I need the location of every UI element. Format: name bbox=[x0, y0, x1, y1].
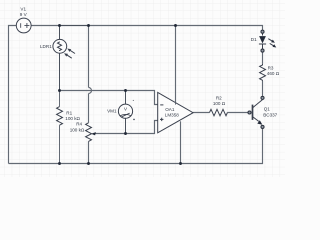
wire op-amp output to R2 bbox=[193, 112, 209, 114]
wire bottom ground rail bbox=[9, 129, 263, 164]
wire LDR to node A bbox=[59, 53, 61, 90]
svg-text:OA1: OA1 bbox=[165, 107, 175, 112]
op-amp OA1 bbox=[158, 92, 193, 132]
svg-text:100 kΩ: 100 kΩ bbox=[70, 128, 85, 133]
svg-text:100 Ω: 100 Ω bbox=[213, 101, 226, 106]
svg-text:9 V: 9 V bbox=[20, 12, 28, 17]
svg-text:LDR1: LDR1 bbox=[40, 44, 52, 49]
LDR LDR1 bbox=[53, 39, 67, 53]
voltmeter VM1 bbox=[118, 104, 132, 118]
svg-text:R1: R1 bbox=[66, 110, 72, 115]
wire Q1 collector to R3 bbox=[262, 81, 264, 96]
terminal Q1 emitter bbox=[261, 125, 264, 128]
svg-text:V1: V1 bbox=[20, 7, 26, 12]
resistor R1 bbox=[59, 91, 61, 107]
junction wiper wire / VM1 bottom bbox=[124, 132, 127, 135]
wire top rail overlap segment bbox=[60, 25, 89, 27]
svg-text:BC337: BC337 bbox=[263, 113, 277, 118]
junction ground rail / R1 bbox=[58, 162, 61, 165]
battery V1 bbox=[16, 18, 31, 33]
junction top rail / R4 branch bbox=[87, 24, 90, 27]
transistor Q1 bbox=[249, 100, 263, 125]
svg-text:R2: R2 bbox=[216, 96, 222, 101]
R4 wiper arrow bbox=[91, 132, 96, 135]
wire R4 wiper to op-amp non-inverting input bbox=[95, 121, 157, 134]
svg-text:LM358: LM358 bbox=[165, 113, 179, 118]
wire top supply rail bbox=[31, 26, 263, 31]
junction ground rail / op-amp V- bbox=[179, 162, 182, 165]
resistor R3 bbox=[260, 64, 266, 81]
VM1 polarity dot top bbox=[133, 100, 134, 101]
wire left rail (V1 minus to ground) bbox=[9, 26, 17, 164]
wire R4 branch upper segment bbox=[88, 26, 90, 88]
junction node A (LDR / R1) bbox=[58, 89, 61, 92]
svg-text:R3: R3 bbox=[268, 65, 274, 70]
svg-text:460 Ω: 460 Ω bbox=[267, 71, 280, 76]
wire op-amp V- supply pin bbox=[180, 121, 182, 163]
wire R2 to Q1 base bbox=[227, 112, 248, 114]
svg-text:D1: D1 bbox=[251, 37, 257, 42]
junction top rail / LDR branch bbox=[58, 24, 61, 27]
svg-text:Q1: Q1 bbox=[264, 107, 271, 112]
D1 emitted light arrows bbox=[268, 39, 276, 48]
wire VM1 bottom lead bbox=[125, 118, 127, 133]
junction top rail / op-amp V+ bbox=[174, 24, 177, 27]
wire R4 branch lower segment bbox=[88, 94, 90, 123]
terminal Q1 base bbox=[248, 111, 251, 114]
LDR1 incident light arrows bbox=[64, 49, 75, 59]
wire node A to op-amp inverting input bbox=[60, 91, 158, 105]
LED D1 bbox=[259, 33, 266, 49]
wire LDR branch from top rail bbox=[59, 26, 61, 40]
wire op-amp V+ supply pin bbox=[175, 26, 177, 104]
terminal D1 anode bbox=[261, 30, 264, 33]
wire R4 bottom to ground rail bbox=[88, 141, 90, 163]
VM1 polarity dot bottom bbox=[133, 119, 135, 121]
wire D1 cathode to R3 bbox=[262, 52, 264, 64]
terminal Q1 collector bbox=[261, 96, 264, 99]
svg-text:VM1: VM1 bbox=[107, 109, 117, 114]
resistor R2 bbox=[210, 109, 228, 116]
potentiometer R4 bbox=[86, 123, 92, 142]
svg-text:R4: R4 bbox=[76, 121, 82, 126]
junction ground rail / R4 bbox=[87, 162, 90, 165]
junction node A / VM1 top bbox=[124, 89, 127, 92]
terminal D1 cathode bbox=[261, 49, 264, 52]
wire hop over node A wire bbox=[89, 88, 92, 94]
wire VM1 top lead bbox=[125, 91, 127, 105]
